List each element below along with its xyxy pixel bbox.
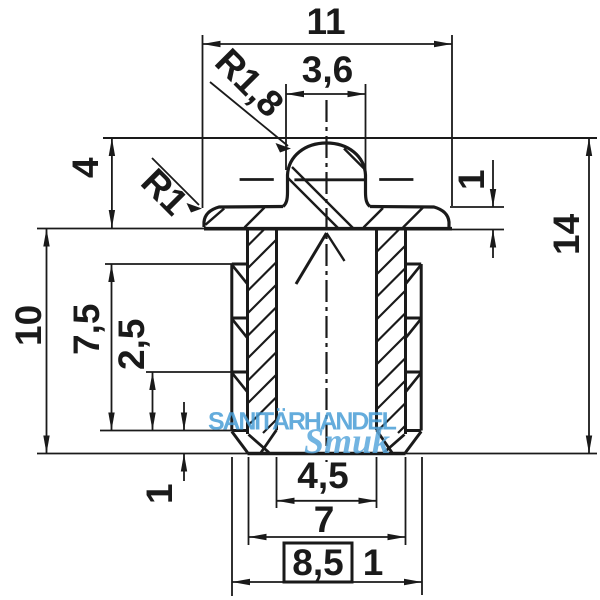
arrow 8,5 right xyxy=(404,579,422,585)
arrow 4 top xyxy=(109,138,115,156)
arrow R1 leader xyxy=(187,203,203,213)
arrow 7,5 bottom xyxy=(108,413,114,431)
arrow 4,5 right xyxy=(359,498,377,504)
hatch wing right 2 xyxy=(403,208,423,228)
wire: flange bottom extension left xyxy=(37,228,204,230)
profile outline xyxy=(204,143,452,454)
horizontal dashed centerline at dome radius center xyxy=(240,178,414,181)
shank left outer edge xyxy=(246,229,249,434)
arrow R1,8 leader xyxy=(276,143,292,153)
hatch wing right 1 xyxy=(364,208,384,228)
bevel bottom-right inner xyxy=(384,435,405,453)
svg-text:R1,8: R1,8 xyxy=(207,41,291,125)
arrow 14 bottom xyxy=(586,436,592,454)
hatch dome C xyxy=(344,149,364,169)
wire: 7 right extension x=405.5 xyxy=(405,457,407,545)
shank bottom xyxy=(248,452,406,455)
hatch dome B xyxy=(288,178,339,229)
dimension 4,5 line xyxy=(277,500,377,502)
svg-text:2,5: 2,5 xyxy=(111,319,152,370)
wire: tooth top extension y=372 xyxy=(146,371,232,373)
centerlines xyxy=(240,100,414,462)
arrow 10 top xyxy=(43,229,49,247)
svg-text:7,5: 7,5 xyxy=(66,304,107,355)
bevel bottom-left inner xyxy=(249,435,270,453)
barb right outer face xyxy=(420,264,423,431)
arrow 3,6 left xyxy=(286,91,304,97)
tooth ramps right xyxy=(406,266,421,284)
hatch wing left tip xyxy=(206,209,225,225)
arrow 1 right lower xyxy=(490,230,496,248)
dimension 11 line xyxy=(203,43,453,45)
bevel bottom-left outer xyxy=(232,432,248,453)
wire: 7 left extension x=248.5 xyxy=(248,457,250,545)
arrow 11 right xyxy=(434,41,452,47)
dimension 2,5 line xyxy=(152,372,154,431)
dimension 14 line xyxy=(588,138,590,454)
arrow 1 left upper xyxy=(181,413,187,431)
dimension 1 left line segments xyxy=(183,402,185,431)
arrow 7 right xyxy=(388,534,406,540)
arrow 14 top xyxy=(586,138,592,156)
barb bottom left xyxy=(232,429,248,432)
bevel bottom-right outer xyxy=(406,432,422,453)
vertical centerline dash-dot xyxy=(325,100,327,462)
shank right outer edge xyxy=(404,229,407,434)
wire: 3,6 right extension x=365.5 xyxy=(365,84,367,170)
tooth ramps left xyxy=(233,266,248,284)
watermark xyxy=(208,408,397,462)
barb left outer face xyxy=(230,264,233,431)
arrow 4 bottom xyxy=(109,210,115,228)
wire: tooth top extension y=264 xyxy=(105,263,232,265)
wire: 11 right extension x=452 xyxy=(451,35,453,206)
flange bottom line xyxy=(204,227,452,231)
svg-text:7: 7 xyxy=(314,499,335,540)
wire: 4,5 right extension x=376.5 xyxy=(376,457,378,508)
svg-text:1: 1 xyxy=(363,542,384,583)
arrow 2,5 top xyxy=(149,372,155,390)
dome xyxy=(283,143,370,207)
hole flare right xyxy=(377,430,393,453)
dimension 1 right line segments xyxy=(492,160,494,207)
arrow 7 left xyxy=(249,534,267,540)
hatch walls xyxy=(248,230,406,434)
arrow 7,5 top xyxy=(108,264,114,282)
leader R1,8 xyxy=(210,82,288,146)
leader R1 xyxy=(152,158,199,205)
wire: 8,5 right extension x=422 xyxy=(421,457,423,595)
arrow 11 left xyxy=(203,41,221,47)
hatch dome A xyxy=(292,167,354,229)
svg-text:1: 1 xyxy=(451,169,492,190)
chevron at hole top left leg xyxy=(296,233,327,284)
dimension 7 line xyxy=(249,536,406,538)
tooth tops right xyxy=(406,263,422,266)
hole left edge xyxy=(275,230,278,430)
svg-text:4: 4 xyxy=(65,157,106,178)
arrow 1 right upper xyxy=(490,189,496,207)
wire: top extension line at profile top y=138 xyxy=(103,137,597,139)
flange top surface with left tip and right tip xyxy=(204,207,283,228)
dimension 8,5 line xyxy=(232,581,422,583)
svg-text:3,6: 3,6 xyxy=(302,49,353,90)
box around 8,5 xyxy=(284,543,352,582)
dimension 7,5 line xyxy=(111,264,113,431)
wire: 4,5 left extension x=276.5 xyxy=(276,457,278,508)
arrow 3,6 right xyxy=(348,91,366,97)
svg-text:8,5: 8,5 xyxy=(292,542,343,583)
dimension 3,6 line xyxy=(286,93,366,95)
svg-text:14: 14 xyxy=(546,213,587,255)
arrow 8,5 left xyxy=(232,579,250,585)
wire: flange top extension right xyxy=(450,206,504,208)
arrow 1 left lower xyxy=(181,454,187,472)
wire: shank bottom extension y=453.5 xyxy=(37,453,597,455)
arrow 10 bottom xyxy=(43,436,49,454)
dimension 10 line xyxy=(46,229,48,454)
wire: barb bottom extension y=430 xyxy=(100,430,232,432)
barb bottom right xyxy=(406,429,422,432)
hole flare left xyxy=(261,430,277,453)
wire: flange bottom extension right xyxy=(452,229,504,231)
dimension 4 line xyxy=(111,138,113,228)
wire: 3,6 left extension x=286 xyxy=(285,84,287,170)
chevron at hole top right leg xyxy=(327,233,345,261)
hole right edge xyxy=(375,230,378,430)
svg-text:10: 10 xyxy=(8,305,49,346)
wire: 11 left extension x=202.5 xyxy=(202,35,204,208)
svg-text:4,5: 4,5 xyxy=(297,455,348,496)
hatch wing left 2 xyxy=(245,208,265,228)
arrow 4,5 left xyxy=(277,498,295,504)
svg-text:11: 11 xyxy=(306,1,345,42)
tooth tops left xyxy=(232,263,248,266)
wire: 8,5 left extension x=232 xyxy=(231,457,233,596)
hatching xyxy=(206,149,424,229)
svg-text:R1: R1 xyxy=(133,161,195,223)
arrow 2,5 bottom xyxy=(149,413,155,431)
svg-text:Smuk: Smuk xyxy=(304,421,390,461)
svg-text:1: 1 xyxy=(139,483,180,504)
